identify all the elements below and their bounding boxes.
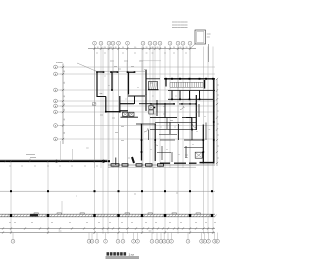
- svg-text:xx: xx: [109, 222, 111, 224]
- svg-text:30: 30: [64, 132, 66, 134]
- svg-text:xx: xx: [128, 158, 130, 160]
- svg-text:xx: xx: [51, 222, 53, 224]
- svg-text:xx: xx: [96, 52, 98, 54]
- svg-text:xx: xx: [180, 222, 182, 224]
- svg-text:xxxx: xxxx: [46, 215, 50, 217]
- svg-text:xx: xx: [176, 193, 178, 195]
- level mark: [61, 201, 63, 214]
- svg-text:xxxxxxxxxxxxxxx: xxxxxxxxxxxxxxx: [172, 27, 189, 29]
- svg-text:30: 30: [104, 47, 106, 49]
- svg-text:xxxx: xxxx: [207, 34, 211, 36]
- svg-text:xx: xx: [96, 165, 98, 167]
- svg-text:x-xxxxx: x-xxxxx: [56, 62, 63, 64]
- stair box: [195, 152, 202, 158]
- svg-text:30: 30: [134, 47, 136, 49]
- svg-text:xx: xx: [125, 99, 127, 101]
- svg-text:30: 30: [97, 47, 99, 49]
- svg-text:xxxxxx: xxxxxx: [30, 157, 36, 159]
- svg-text:xx: xx: [217, 157, 219, 159]
- svg-text:xxx: xxx: [121, 140, 124, 142]
- svg-text:xx: xx: [31, 222, 33, 224]
- svg-text:x: x: [76, 196, 77, 198]
- svg-text:xx: xx: [9, 222, 11, 224]
- svg-text:xx: xx: [131, 222, 133, 224]
- svg-text:xx: xx: [121, 222, 123, 224]
- svg-text:xxx: xxx: [144, 69, 147, 71]
- svg-text:xxx: xxx: [170, 120, 173, 122]
- svg-text:xx: xx: [217, 145, 219, 147]
- svg-text:xx: xx: [69, 222, 71, 224]
- leader label: [77, 63, 97, 71]
- svg-text:xxx: xxx: [100, 115, 103, 117]
- svg-text:30: 30: [64, 103, 66, 105]
- svg-text:xx: xx: [155, 222, 157, 224]
- svg-text:xxx: xxx: [121, 126, 124, 128]
- svg-text:xxx: xxx: [153, 114, 156, 116]
- svg-text:xx: xx: [192, 144, 194, 146]
- svg-text:xx: xx: [14, 222, 16, 224]
- horizontal grid lines: [60, 66, 215, 68]
- svg-text:xxx: xxx: [131, 66, 134, 68]
- svg-text:xxxx: xxxx: [110, 61, 114, 63]
- svg-text:xxx: xxx: [150, 83, 153, 85]
- svg-text:xxx: xxx: [86, 148, 89, 150]
- svg-text:xxx: xxx: [130, 113, 133, 115]
- svg-text:xxxx: xxxx: [124, 61, 128, 63]
- svg-text:xxx: xxx: [207, 36, 210, 38]
- svg-text:xxx: xxx: [185, 157, 188, 159]
- door marks on band: [34, 213, 39, 214]
- svg-text:1:xx: 1:xx: [129, 253, 135, 257]
- svg-text:xx: xx: [146, 52, 148, 54]
- svg-text:30: 30: [152, 47, 154, 49]
- svg-text:xx: xx: [174, 127, 176, 129]
- svg-text:xxx: xxx: [59, 231, 62, 233]
- svg-text:xx: xx: [164, 52, 166, 54]
- svg-text:xx: xx: [166, 149, 168, 151]
- svg-text:xx: xx: [152, 52, 154, 54]
- vertical grid lines: [94, 47, 96, 169]
- svg-text:xx: xx: [86, 222, 88, 224]
- bottom hatched band: [0, 213, 215, 215]
- svg-text:30: 30: [164, 47, 166, 49]
- svg-text:xx: xx: [59, 165, 61, 167]
- podium edge thick line: [0, 159, 108, 161]
- svg-text:xx: xx: [104, 76, 106, 78]
- svg-text:xx: xx: [183, 107, 185, 109]
- svg-text:xx: xx: [163, 106, 165, 108]
- svg-text:30: 30: [64, 109, 66, 111]
- svg-text:xx: xx: [145, 222, 147, 224]
- svg-text:xx: xx: [175, 96, 177, 98]
- svg-text:30: 30: [122, 47, 124, 49]
- svg-text:xx: xx: [47, 165, 49, 167]
- balcony window band: [170, 81, 203, 83]
- svg-text:xx: xx: [84, 165, 86, 167]
- svg-text:xx: xx: [214, 222, 216, 224]
- svg-text:xx: xx: [205, 222, 207, 224]
- svg-text:30: 30: [173, 47, 175, 49]
- left dimension band: [62, 64, 64, 145]
- svg-text:30: 30: [146, 47, 148, 49]
- tower walls: [97, 71, 105, 73]
- svg-text:xxx: xxx: [115, 132, 118, 134]
- bottom grid bubbles: [12, 233, 14, 240]
- short verticals above podium edge: [59, 141, 61, 161]
- svg-text:xx: xx: [150, 149, 152, 151]
- title: [107, 252, 110, 255]
- svg-text:30: 30: [186, 47, 188, 49]
- svg-text:xx: xx: [196, 131, 198, 133]
- svg-text:xx: xx: [134, 194, 136, 196]
- svg-text:xx: xx: [98, 222, 100, 224]
- svg-text:xxx: xxx: [112, 118, 115, 120]
- svg-text:xx: xx: [204, 116, 206, 118]
- svg-text:xx: xx: [178, 154, 180, 156]
- svg-text:xx: xx: [34, 165, 36, 167]
- hatch piece: [92, 103, 96, 105]
- svg-text:30: 30: [64, 70, 66, 72]
- svg-text:xx: xx: [196, 112, 198, 114]
- svg-text:xx: xx: [209, 129, 211, 131]
- svg-text:xx: xx: [217, 110, 219, 112]
- svg-text:30: 30: [115, 47, 117, 49]
- svg-text:xxx: xxx: [114, 66, 117, 68]
- svg-text:xx: xx: [195, 222, 197, 224]
- svg-text:30: 30: [110, 47, 112, 49]
- svg-text:xx: xx: [108, 85, 110, 87]
- svg-text:30: 30: [64, 82, 66, 84]
- svg-text:xx: xx: [185, 52, 187, 54]
- svg-text:xx: xx: [122, 52, 124, 54]
- svg-text:xxxxxxxxxxxxxxx: xxxxxxxxxxxxxxx: [172, 22, 189, 24]
- right dim chain: [216, 79, 218, 166]
- svg-text:xxxxxxxxxxxxxxx: xxxxxxxxxxxxxxx: [172, 24, 189, 26]
- svg-text:xx: xx: [169, 222, 171, 224]
- svg-text:xx: xx: [217, 94, 219, 96]
- svg-text:xx: xx: [21, 165, 23, 167]
- middle column line: [0, 190, 215, 192]
- svg-text:xxx: xxx: [163, 114, 166, 116]
- svg-text:xxx: xxx: [118, 68, 121, 70]
- svg-text:xx: xx: [137, 87, 139, 89]
- svg-text:30: 30: [64, 95, 66, 97]
- svg-text:30: 30: [157, 47, 159, 49]
- svg-text:30: 30: [64, 119, 66, 121]
- svg-text:xx: xx: [173, 52, 175, 54]
- svg-text:xx: xx: [9, 165, 11, 167]
- svg-text:xx: xx: [71, 165, 73, 167]
- svg-text:xxx: xxx: [100, 93, 103, 95]
- svg-text:xx: xx: [160, 127, 162, 129]
- svg-text:xxxxxxxxx: xxxxxxxxx: [26, 154, 35, 156]
- svg-text:xx: xx: [134, 52, 136, 54]
- svg-text:xx: xx: [152, 96, 154, 98]
- top dimension band: [88, 48, 196, 50]
- svg-text:30: 30: [180, 47, 182, 49]
- tower bottom storefronts: [108, 164, 215, 166]
- svg-text:xx: xx: [217, 84, 219, 86]
- svg-text:xxx: xxx: [149, 231, 152, 233]
- svg-text:xx: xx: [217, 134, 219, 136]
- svg-text:xx: xx: [104, 52, 106, 54]
- svg-text:xx: xx: [217, 123, 219, 125]
